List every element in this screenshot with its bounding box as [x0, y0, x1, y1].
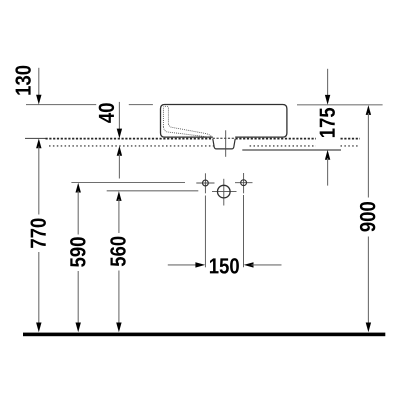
fixing hole right — [243, 173, 245, 193]
drain inner edge — [217, 139, 219, 149]
solid line 770 level left — [25, 137, 46, 139]
drain outlet trapezoid — [213, 139, 235, 149]
floor line — [23, 333, 385, 337]
dimension 150 arrows — [168, 264, 198, 266]
150 label — [210, 258, 239, 273]
washbasin outer profile — [161, 105, 287, 138]
drain centerline — [225, 130, 227, 157]
dimension 130: shaft + down arrow — [38, 68, 40, 97]
40 label — [99, 103, 114, 123]
130 label — [15, 66, 30, 95]
590 label — [70, 237, 85, 267]
560 label — [110, 237, 125, 267]
washbasin sectioned wall inner dotted contour — [163, 106, 216, 148]
extension line rim-top level left segment — [26, 104, 96, 106]
770 label — [30, 219, 45, 248]
dotted line A (770 level) — [46, 138, 317, 140]
line 560 level — [107, 190, 199, 192]
fixing hole left — [204, 173, 206, 193]
extension line rim-top level mid segment — [129, 104, 153, 106]
dimension 560 — [116, 191, 121, 201]
900 label — [360, 202, 375, 232]
dotted line B (lower hidden line) — [49, 145, 214, 147]
extension line rim-top level right segment — [297, 104, 383, 106]
dimension 175 — [327, 69, 329, 97]
dimension 900 — [366, 105, 371, 115]
solid line 175-bottom level — [242, 149, 341, 151]
extension line below right fixing hole — [243, 195, 245, 267]
175 label — [318, 106, 338, 139]
dimension 770: up arrow at 770 line, shaft, down arrow at floor — [36, 139, 41, 149]
faucet hole large circle — [223, 179, 225, 206]
dimension 590 — [76, 183, 81, 193]
line 590 level — [71, 182, 185, 184]
dimension 40: shaft above, down arrow; up arrow below — [118, 102, 120, 131]
extension line below left fixing hole — [204, 196, 206, 268]
